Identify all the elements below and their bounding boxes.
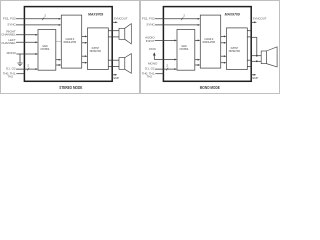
svg-text:CHANNEL: CHANNEL — [1, 41, 16, 45]
svg-text:FS1, FS2: FS1, FS2 — [142, 17, 155, 21]
svg-text:MONO: MONO — [148, 62, 158, 66]
svg-text:TEMP: TEMP — [251, 76, 258, 80]
svg-text:FS1, FS2: FS1, FS2 — [3, 17, 16, 21]
svg-text:TH2: TH2 — [147, 75, 153, 79]
svg-text:STEREO MODE: STEREO MODE — [59, 85, 82, 90]
svg-text:MONO: MONO — [7, 51, 17, 55]
svg-text:MODULATOR: MODULATOR — [203, 40, 215, 44]
svg-text:TH2: TH2 — [8, 75, 14, 79]
svg-text:MONO MODE: MONO MODE — [200, 85, 220, 90]
svg-text:MAX9709: MAX9709 — [88, 12, 104, 17]
svg-text:SYNC: SYNC — [146, 23, 155, 27]
svg-text:INPUT: INPUT — [146, 39, 155, 43]
svg-text:TEMP: TEMP — [112, 76, 119, 80]
svg-text:G1, G2: G1, G2 — [145, 66, 155, 70]
svg-text:SYNCOUT: SYNCOUT — [253, 17, 267, 21]
svg-text:SYNC: SYNC — [7, 23, 16, 27]
svg-text:CONTROL: CONTROL — [179, 47, 188, 51]
svg-text:MODULATOR: MODULATOR — [64, 40, 76, 44]
svg-text:G1, G2: G1, G2 — [6, 66, 16, 70]
svg-text:SYNCOUT: SYNCOUT — [114, 17, 128, 21]
svg-text:CONTROL: CONTROL — [40, 47, 49, 51]
svg-text:PROTECTION: PROTECTION — [229, 49, 240, 53]
svg-text:PROTECTION: PROTECTION — [90, 49, 101, 53]
svg-text:MAX9709: MAX9709 — [225, 12, 241, 17]
svg-text:CHANNEL: CHANNEL — [1, 33, 16, 37]
